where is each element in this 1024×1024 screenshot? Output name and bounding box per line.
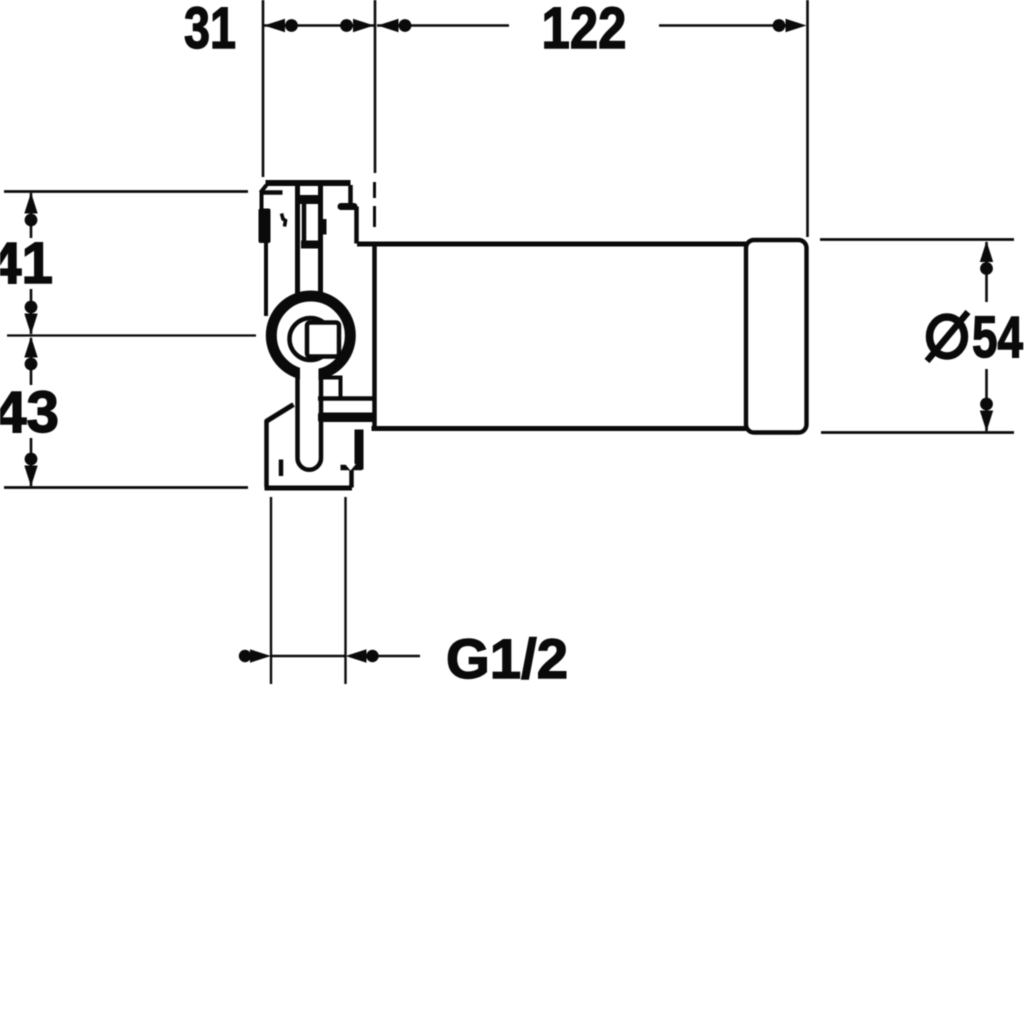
front face of plate	[372, 246, 377, 428]
svg-text:122: 122	[542, 0, 627, 61]
notch white	[345, 464, 356, 471]
black seal bar left	[259, 209, 271, 244]
stem interior clear	[300, 366, 319, 460]
arrow left of 31	[264, 19, 298, 32]
extension line right of 122	[806, 0, 809, 237]
diameter 54 extension line top	[820, 238, 1014, 241]
boss outer ring	[271, 296, 350, 375]
extension line left of 31 dim	[262, 0, 265, 177]
arrow down (D54)	[980, 398, 993, 432]
dimension line 31	[264, 24, 374, 27]
G1/2 extension line left	[270, 497, 272, 684]
G1/2 dimension line	[271, 655, 346, 658]
cylinder bottom edge	[372, 426, 747, 431]
socket square	[307, 323, 339, 357]
svg-text:G1/2: G1/2	[446, 627, 568, 690]
wall bump right	[321, 219, 327, 235]
lower lobe chamfer	[266, 405, 294, 422]
small dash in lobe	[279, 460, 284, 477]
slot left wall	[302, 204, 307, 243]
slot top band	[300, 195, 319, 204]
thick flange band	[318, 413, 375, 423]
bracket left edge middle	[264, 242, 268, 316]
arrow outside-right (G1/2)	[346, 649, 379, 662]
bracket top-left chamfer	[261, 185, 267, 193]
channel left wall	[295, 183, 300, 300]
lower lobe right edge	[349, 469, 354, 488]
dimension line 41/43 vertical segments	[30, 193, 33, 238]
extension line right of 31 dim (center axis, dashed below)	[374, 0, 377, 173]
bracket right edge upper	[348, 185, 353, 205]
shelf step right of stem	[322, 378, 375, 399]
arrow at right of 122	[773, 19, 807, 32]
socket inner circle	[290, 318, 332, 360]
centerline through boss	[7, 334, 256, 336]
lug tab	[341, 203, 354, 210]
arrow right of 31	[340, 19, 374, 32]
lower lobe bottom edge	[265, 486, 353, 491]
dimension line D54 segments	[985, 242, 988, 302]
G1/2 extension line right	[344, 497, 346, 684]
bracket top edge	[266, 180, 351, 186]
stem below boss	[298, 372, 322, 470]
dash of center axis	[373, 182, 376, 198]
channel right wall	[318, 186, 323, 300]
end cap rounded rect	[746, 240, 807, 433]
arrow up (D54)	[980, 241, 993, 275]
lower lobe left edge	[264, 420, 269, 487]
arrow outside-left (G1/2)	[239, 649, 271, 662]
cylinder top edge	[357, 242, 747, 247]
svg-text:31: 31	[184, 0, 236, 61]
right step edge	[354, 207, 359, 244]
dimension line 122 left segment	[377, 24, 509, 27]
arrow down at bottom ext (43)	[24, 453, 37, 487]
lower right bar	[355, 430, 364, 470]
arrow at left of 122	[378, 19, 412, 32]
arrow up at centerline (43)	[24, 337, 37, 371]
zigzag mark	[282, 214, 286, 227]
shelf line lower	[318, 396, 374, 401]
extension line top (41 dim)	[4, 190, 248, 193]
extension line bottom (43 dim)	[4, 486, 248, 489]
svg-text:54: 54	[972, 305, 1023, 370]
diameter 54 extension line bottom	[821, 431, 1014, 434]
lower step	[341, 465, 363, 471]
left lip line	[262, 190, 283, 195]
label D54 diameter symbol	[927, 312, 968, 361]
svg-text:43: 43	[0, 380, 59, 445]
dash of center axis	[373, 206, 376, 227]
arrow down at centerline (41)	[24, 301, 37, 335]
slot bottom band	[301, 241, 321, 249]
svg-text:41: 41	[0, 231, 53, 296]
G1/2 leader line	[364, 655, 420, 658]
bracket left edge upper	[260, 191, 264, 211]
dimension line 122 right segment	[659, 24, 788, 27]
arrow up at top ext (41)	[24, 193, 37, 227]
